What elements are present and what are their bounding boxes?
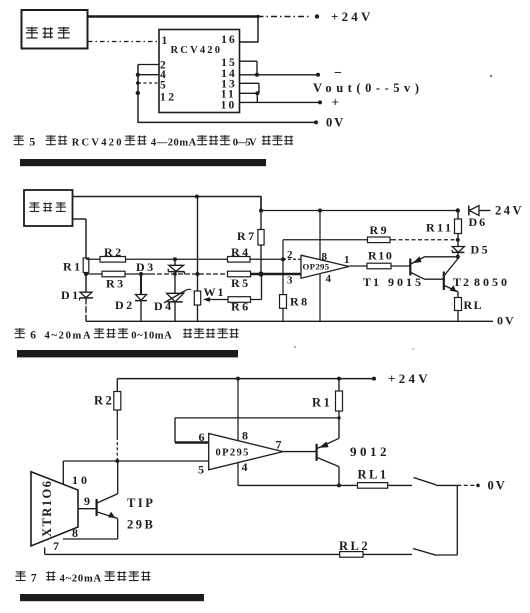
resistor R8	[280, 295, 287, 309]
svg-text:8: 8	[72, 526, 78, 540]
node Vout- terminal	[316, 73, 320, 77]
separator bar 3	[20, 594, 204, 601]
node pin14/15 junction	[255, 73, 259, 77]
wire pin10 line (XTR106 to op-amp pin5)	[63, 461, 208, 485]
pin 13	[221, 79, 237, 91]
scan speck 2	[294, 346, 296, 348]
svg-text:R1: R1	[63, 260, 83, 274]
svg-text:4~20mA: 4~20mA	[45, 331, 92, 342]
svg-text:8: 8	[322, 251, 328, 263]
svg-text:7: 7	[276, 438, 282, 452]
node R1 top	[84, 257, 88, 261]
svg-text:D4: D4	[154, 299, 174, 313]
svg-text:D2: D2	[115, 298, 135, 312]
label R3	[106, 277, 126, 291]
svg-text:7: 7	[31, 572, 37, 584]
op-amp U3 XTR106 block	[31, 472, 78, 546]
node R9/R11/D5 junction	[456, 238, 460, 242]
svg-text:0P295: 0P295	[216, 448, 250, 459]
wire W1 vertical	[197, 197, 199, 322]
pin 6 label fig7	[199, 430, 205, 444]
label +24V fig5	[331, 9, 374, 24]
svg-text:Vout(0--5v): Vout(0--5v)	[313, 81, 419, 95]
label 0V fig5	[326, 116, 345, 130]
label RL fig6	[464, 298, 484, 312]
pin 8 label fig6	[322, 251, 328, 263]
label R9	[370, 223, 390, 237]
resistor R1 fig7 with wires	[336, 379, 343, 418]
svg-text:6: 6	[30, 330, 36, 342]
wire pin14 to Vout- terminal	[240, 74, 319, 76]
wire op-amp output to T1 base	[349, 265, 410, 267]
diode D2	[135, 274, 147, 321]
node 0V terminal fig5	[314, 120, 318, 124]
resistor RL fig6	[455, 298, 462, 311]
label T2 8050	[453, 275, 510, 289]
svg-text:3: 3	[287, 275, 293, 287]
label RCV420	[171, 45, 223, 56]
label RL1	[358, 468, 389, 482]
wire pin10 to Vout+ terminal	[240, 101, 321, 103]
svg-text:29B: 29B	[127, 518, 155, 532]
label 0V fig7	[488, 479, 507, 493]
svg-text:6: 6	[199, 430, 205, 444]
wire +24V dash-dot segment	[258, 16, 312, 18]
node D2 top	[139, 272, 143, 276]
node D5/T1e/T2c junction	[456, 255, 460, 259]
label R4	[231, 245, 251, 259]
pin 15	[221, 57, 237, 69]
svg-text:D1: D1	[61, 288, 81, 302]
wire current-loop input (dashed) to pin1	[88, 41, 159, 43]
wire +24V supply from transmitter (thick)	[88, 15, 258, 18]
node D3 top	[173, 257, 177, 261]
transistor Q2 9012 (PNP)	[317, 438, 339, 466]
op-amp U4 OP295 fig7	[209, 434, 283, 470]
label D6	[469, 215, 488, 229]
node 0V return junction	[136, 91, 140, 95]
label T1 9015	[363, 275, 424, 289]
op-amp U2 OP295 fig6	[301, 255, 349, 278]
wire T1 collector to T2 base	[425, 278, 444, 280]
wire T2 emitter to RL	[457, 292, 459, 298]
wire RL2 line	[45, 553, 412, 555]
svg-text:OP295: OP295	[303, 262, 330, 272]
transistor T2 8050 (NPN)	[444, 259, 458, 293]
svg-text:D5: D5	[471, 243, 491, 257]
node R11/D6 branch	[456, 208, 460, 212]
wire R8 vertical	[282, 259, 284, 321]
svg-text:+24V: +24V	[331, 9, 374, 24]
node pin5 junction	[136, 81, 140, 85]
pin 1	[162, 35, 168, 47]
svg-text:RCV420: RCV420	[72, 138, 122, 149]
transistor T1 9015 (PNP)	[410, 256, 424, 279]
node supply rail junction at R7	[259, 209, 263, 213]
svg-text:R2: R2	[104, 245, 124, 259]
pin 5 label fig7	[198, 463, 204, 477]
wire pin7 down to RL2 line	[44, 548, 46, 555]
wire pin3 line (thick)	[251, 273, 302, 275]
svg-text:R7: R7	[237, 229, 257, 243]
pin 7 label fig7b	[276, 438, 282, 452]
pin 2 label fig6	[287, 249, 293, 261]
label 24V fig6	[495, 204, 524, 218]
svg-text:+: +	[332, 95, 339, 110]
separator bar 1	[20, 159, 266, 166]
wire 0V stub fig7	[457, 484, 477, 486]
pin 1 label fig6	[344, 254, 350, 266]
svg-text:12: 12	[160, 92, 177, 104]
zener D4 (adjustable)	[164, 274, 191, 321]
wire Q1 collector up	[117, 461, 119, 494]
svg-text:W1: W1	[204, 285, 226, 299]
label RL2	[339, 539, 370, 553]
wire pin11 down to pin10 line	[256, 93, 258, 102]
label R6	[231, 300, 251, 314]
svg-text:16: 16	[221, 34, 237, 46]
wire pin6 input (thick)	[175, 441, 209, 444]
label 0V fig6	[497, 314, 516, 328]
label D3	[136, 260, 156, 274]
transmitter box (bian-song-qi) fig6	[24, 190, 73, 226]
wire R9 feedback line	[283, 240, 458, 259]
label TIP 29B	[127, 496, 155, 532]
resistor R4	[228, 257, 251, 263]
label caption figure 5	[13, 135, 293, 148]
node R5/R7/R6 junction (thick)	[258, 271, 263, 276]
node R2/T collector junction	[115, 459, 119, 463]
svg-text:8050: 8050	[474, 275, 510, 289]
wire R6 right up to R5 node	[261, 274, 263, 300]
svg-text:R11: R11	[426, 221, 454, 235]
svg-text:0V: 0V	[497, 314, 516, 328]
node Vout+ terminal	[318, 100, 322, 104]
wire RL2 switch to 0V vertical	[436, 554, 457, 556]
wire +24V top rail fig7	[117, 378, 374, 380]
pin 14	[221, 68, 237, 80]
wire 0V vertical to RL2	[456, 485, 458, 555]
pin 5	[160, 80, 166, 92]
node +24V terminal	[315, 14, 319, 18]
node R1 top	[337, 377, 341, 381]
pin 11	[221, 89, 236, 101]
label minus sign	[334, 66, 342, 81]
svg-text:XTR1O6: XTR1O6	[40, 481, 54, 537]
wire Q2 emitter to R1	[338, 418, 340, 438]
resistor RL1	[358, 483, 388, 489]
node Q2 collector on RL1 line	[337, 483, 341, 487]
op-amp U1 RCV420 IC body	[159, 30, 240, 113]
wire RL1 switch to 0V node	[436, 484, 457, 486]
resistor RL2	[340, 552, 363, 558]
wire R2 line (R1 top to op-amp pin2)	[86, 258, 301, 260]
svg-text:RL: RL	[464, 298, 484, 312]
node +24V terminal fig7	[372, 377, 376, 381]
wire T1 emitter to D5 node	[425, 256, 458, 258]
wire Q2 collector down	[338, 467, 340, 486]
pin 9 label fig7	[84, 494, 90, 508]
node W1 top junction	[196, 272, 200, 276]
svg-text:5: 5	[29, 137, 35, 149]
svg-text:1: 1	[344, 254, 350, 266]
potentiometer W1	[194, 291, 200, 305]
svg-text:R9: R9	[370, 223, 390, 237]
label R2	[104, 245, 124, 259]
label caption figure 6	[15, 328, 239, 341]
wire transmitter lower out	[73, 219, 87, 259]
svg-text:R1: R1	[312, 396, 332, 410]
node W1 branch on top rail	[195, 195, 199, 199]
svg-text:D6: D6	[469, 215, 488, 229]
svg-text:4: 4	[326, 273, 332, 285]
node R1 bottom feedback junction	[337, 416, 340, 419]
label R7	[237, 229, 257, 243]
svg-text:8: 8	[242, 429, 248, 443]
svg-text:10: 10	[72, 473, 90, 487]
label plus sign	[332, 95, 339, 110]
wire pin15 stub	[240, 61, 258, 75]
wire W1 wiper arrow / R6 line	[203, 297, 262, 302]
wire 0V rail fig6	[86, 320, 493, 322]
svg-text:0V: 0V	[488, 479, 507, 493]
resistor R2 with wires	[114, 379, 121, 461]
pin 7 label fig7	[53, 539, 59, 553]
node supply branch op-amp fig7	[236, 377, 240, 381]
wire pin2 stub left	[138, 65, 159, 124]
diode D6	[469, 206, 491, 216]
wire feedback line fig7	[175, 418, 339, 443]
scan speck 1	[490, 75, 492, 77]
label D4	[154, 299, 174, 313]
resistor R2	[100, 257, 126, 263]
pin 4	[160, 69, 166, 81]
diode D1	[80, 274, 94, 321]
resistor R6	[228, 297, 251, 303]
wire 0V return line	[138, 121, 316, 123]
wire RL to 0V rail	[457, 311, 459, 322]
wire pin13 stub	[240, 83, 260, 93]
node D4 top	[173, 272, 177, 276]
svg-text:5: 5	[160, 80, 166, 92]
label R1	[63, 260, 83, 274]
svg-text:D3: D3	[136, 260, 156, 274]
diode D5	[452, 240, 464, 259]
svg-text:9015: 9015	[388, 275, 424, 289]
label Vout(0--5v)	[313, 81, 419, 95]
svg-text:R8: R8	[290, 295, 310, 309]
svg-text:R3: R3	[106, 277, 126, 291]
zener D3	[168, 259, 184, 274]
svg-text:10: 10	[221, 100, 237, 112]
label R8	[290, 295, 310, 309]
node pin16 rail junction	[256, 15, 259, 18]
svg-text:1: 1	[162, 35, 168, 47]
svg-text:24V: 24V	[495, 204, 524, 218]
label D1	[61, 288, 81, 302]
transistor Q1 TIP29B (NPN)	[97, 494, 118, 519]
label W1	[204, 285, 226, 299]
wire pin11 stub	[240, 92, 260, 94]
pin 8 label fig7	[72, 526, 78, 540]
label +24V fig7	[388, 371, 431, 386]
pin 3 label fig6	[287, 275, 293, 287]
wire supply vertical fig7	[237, 379, 239, 486]
pin 8 label fig7b	[242, 429, 248, 443]
svg-text:−: −	[334, 66, 342, 81]
wire pin5 stub (dashed)	[138, 82, 159, 84]
label R1 fig7	[312, 396, 332, 410]
pin 2	[160, 60, 166, 72]
svg-text:T2: T2	[453, 275, 471, 289]
resistor R10	[367, 263, 391, 269]
svg-text:0V: 0V	[326, 116, 345, 130]
svg-text:0—5V: 0—5V	[233, 138, 257, 149]
node R8 branch on pin2 line	[281, 257, 285, 261]
label R2 fig7	[94, 394, 114, 408]
svg-text:5: 5	[198, 463, 204, 477]
svg-text:9: 9	[84, 494, 90, 508]
svg-text:RL1: RL1	[358, 468, 389, 482]
resistor R3	[102, 271, 125, 277]
separator bar 2	[17, 350, 238, 357]
wire op-amp output fig7	[283, 451, 316, 453]
svg-text:0~10mA: 0~10mA	[131, 331, 172, 342]
svg-text:T1: T1	[363, 275, 381, 289]
resistor R1	[83, 258, 89, 273]
wire +24V rail fig6	[261, 210, 458, 212]
resistor R11 with wires	[455, 211, 462, 240]
node R1 bottom	[84, 272, 88, 276]
pin 10 label fig7	[72, 473, 90, 487]
label D5	[471, 243, 491, 257]
label D2	[115, 298, 135, 312]
scan speck 3	[412, 348, 414, 350]
wire pin4 stub	[138, 74, 159, 76]
svg-text:R10: R10	[368, 249, 393, 263]
transmitter box (bian-song-qi) fig5	[22, 10, 88, 49]
svg-text:4: 4	[242, 460, 248, 474]
svg-text:R2: R2	[94, 394, 114, 408]
label R5	[231, 276, 251, 290]
switch contact 1	[414, 478, 437, 485]
node op-amp supply branch	[318, 209, 322, 213]
svg-text:7: 7	[53, 539, 59, 553]
resistor R5	[228, 271, 251, 277]
wire RL1 line	[238, 484, 412, 486]
pin 16	[221, 34, 237, 46]
node pin4 junction	[136, 73, 140, 77]
svg-text:2: 2	[287, 249, 293, 261]
svg-text:R5: R5	[231, 276, 251, 290]
wire op-amp supply vertical fig6	[319, 211, 321, 322]
wire pin16 to +24V rail	[240, 17, 259, 43]
svg-text:+24V: +24V	[388, 371, 431, 386]
resistor R7	[258, 230, 264, 246]
pin 4 label fig6	[326, 273, 332, 285]
svg-text:RCV420: RCV420	[171, 45, 223, 56]
node 0V terminal fig7	[476, 484, 480, 488]
pin 10	[221, 100, 237, 112]
wire Q1 emitter to pin8	[63, 519, 118, 540]
svg-text:4~20mA: 4~20mA	[60, 573, 102, 584]
svg-text:9012: 9012	[350, 444, 390, 459]
pin 4 label fig7b	[242, 460, 248, 474]
svg-text:R6: R6	[231, 300, 251, 314]
wire top rail corner down	[260, 197, 262, 211]
label R11	[426, 221, 454, 235]
svg-text:4—20mA: 4—20mA	[151, 138, 197, 149]
wire R7 vertical	[260, 197, 262, 275]
wire top rail from transmitter fig6	[73, 196, 262, 198]
label R10	[368, 249, 393, 263]
wire R3 line (R1 bottom to R5)	[86, 273, 228, 275]
label caption figure 7	[15, 571, 150, 584]
label 9012	[350, 444, 390, 459]
wire pin9 to Q base	[78, 508, 96, 510]
pin 12	[160, 92, 177, 104]
switch contact 2	[413, 549, 436, 556]
svg-text:R4: R4	[231, 245, 251, 259]
svg-text:TIP: TIP	[127, 496, 155, 510]
resistor R9	[368, 237, 391, 243]
svg-text:RL2: RL2	[339, 539, 370, 553]
node pin11/13 junction	[255, 91, 259, 95]
